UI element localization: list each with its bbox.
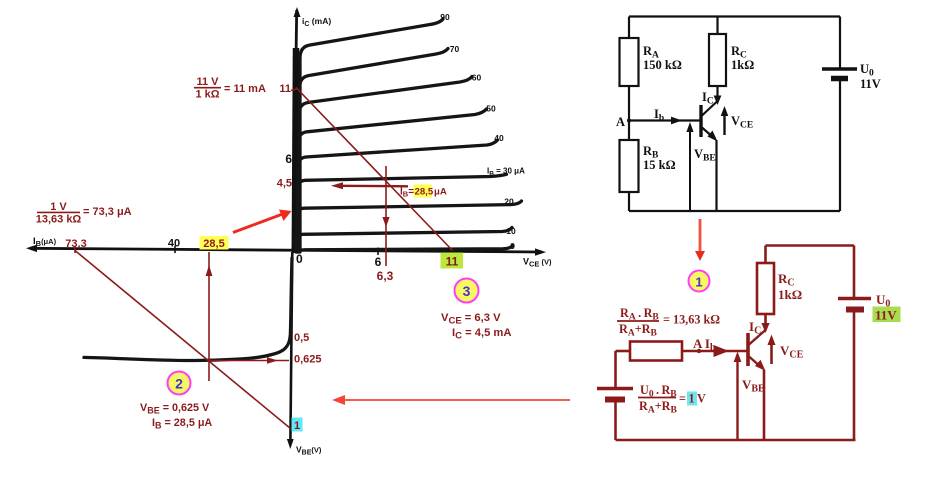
input characteristic curve — [84, 258, 292, 361]
wire bottom rail (bottom circuit) — [616, 439, 856, 442]
output curve IB=30 — [298, 174, 507, 252]
svg-text:15 kΩ: 15 kΩ — [643, 158, 676, 172]
svg-text:0,5: 0,5 — [294, 332, 309, 344]
svg-text:11: 11 — [446, 255, 459, 269]
svg-text:RA . RB: RA . RB — [620, 306, 659, 323]
svg-text:10: 10 — [506, 226, 516, 236]
red arrow to input curve steep part — [233, 210, 292, 233]
svg-text:VCE: VCE — [780, 343, 804, 361]
wire RB to bottom — [628, 192, 630, 211]
marker line IB=28,5 output — [331, 182, 408, 189]
arrow VCE (bottom circuit) — [768, 335, 776, 365]
fraction U0.RB/(RA+RB)=1V — [638, 383, 706, 416]
svg-text:RA+RB: RA+RB — [639, 399, 677, 416]
svg-text:40: 40 — [494, 133, 504, 143]
svg-text:1: 1 — [294, 420, 300, 432]
svg-text:IC = 4,5 mA: IC = 4,5 mA — [452, 327, 511, 342]
battery U0 (top circuit) — [822, 69, 857, 79]
tick 73,3 — [74, 246, 76, 253]
axis VCE / IB horizontal — [26, 245, 546, 256]
svg-text:11V: 11V — [875, 308, 897, 323]
output curve IB=50 — [299, 109, 487, 252]
svg-text:11 V: 11 V — [196, 76, 219, 88]
svg-text:1kΩ: 1kΩ — [778, 287, 802, 302]
svg-text:28,5: 28,5 — [415, 187, 434, 198]
output curve IB=10 — [297, 228, 513, 253]
label 11V green (bottom circuit) — [873, 307, 901, 323]
wire RC2 to collector — [764, 314, 767, 329]
svg-text:VBE = 0,625 V: VBE = 0,625 V — [140, 402, 210, 416]
axis iC vertical — [293, 7, 300, 253]
marker line IB=28,5 input vertical — [206, 252, 213, 381]
wire right battery bottom (bottom circuit) — [853, 310, 856, 440]
label IB=28,5 uA with yellow highlight — [414, 185, 433, 198]
wire base (thevenin resistor to transistor) — [682, 350, 747, 353]
output curve IB=40 — [298, 140, 498, 252]
svg-text:28,5: 28,5 — [203, 238, 224, 250]
svg-text:20: 20 — [504, 197, 514, 207]
svg-text:μA: μA — [434, 187, 447, 198]
wire left branch upper — [628, 17, 630, 39]
resistor RB — [620, 140, 639, 192]
svg-text:VBE(V): VBE(V) — [296, 445, 322, 457]
svg-text:iC (mA): iC (mA) — [302, 16, 331, 28]
svg-text:V: V — [697, 392, 706, 406]
svg-text:VBE: VBE — [694, 147, 716, 164]
resistor RC — [709, 34, 726, 86]
svg-text:150 kΩ: 150 kΩ — [643, 58, 682, 72]
resistor thevenin — [630, 342, 682, 361]
battery right U0 (bottom circuit) — [838, 299, 871, 310]
svg-text:VBE: VBE — [742, 377, 765, 395]
arrow Ib big (bottom circuit) — [714, 345, 730, 357]
wire RC branch top — [716, 17, 718, 35]
fraction 1V/13,63kOhm = 73,3 uA — [36, 201, 132, 226]
svg-text:VCE (V): VCE (V) — [523, 257, 552, 269]
svg-text:3: 3 — [463, 283, 471, 299]
wire top rail (bottom circuit) — [766, 244, 855, 247]
svg-text:1 kΩ: 1 kΩ — [195, 89, 219, 101]
arrow IC (bottom circuit) — [761, 323, 769, 333]
circle 3 — [455, 279, 479, 303]
wire base (node A to transistor) — [629, 119, 700, 121]
svg-text:1 V: 1 V — [50, 201, 67, 213]
svg-text:0: 0 — [296, 252, 303, 266]
svg-text:70: 70 — [450, 44, 460, 54]
svg-text:1kΩ: 1kΩ — [731, 58, 754, 72]
output curve IB=90 — [300, 19, 443, 252]
axis VBE vertical down — [287, 252, 294, 449]
node A dot — [627, 119, 631, 123]
load line output (11mA to 11V) — [296, 88, 453, 251]
wire RA to node A — [628, 86, 630, 140]
wire left of thevenin resistor — [616, 350, 631, 353]
red down arrow between circuits — [695, 219, 705, 261]
svg-text:4,5: 4,5 — [277, 178, 292, 190]
svg-text:VCE = 6,3 V: VCE = 6,3 V — [441, 312, 501, 327]
svg-text:6: 6 — [375, 255, 382, 269]
svg-text:73,3: 73,3 — [65, 238, 86, 250]
arrow VBE (bottom circuit) — [734, 352, 742, 441]
svg-text:IB=: IB= — [400, 187, 414, 199]
svg-text:IB(μA): IB(μA) — [33, 236, 57, 248]
svg-text:= 13,63 kΩ: = 13,63 kΩ — [663, 313, 720, 327]
wire right branch upper — [839, 17, 841, 70]
wire right battery top (bottom circuit) — [853, 246, 856, 298]
output curve IB=60 — [299, 77, 472, 253]
wire RC2 top — [764, 246, 767, 264]
svg-text:RA+RB: RA+RB — [619, 322, 657, 339]
svg-text:2: 2 — [175, 376, 183, 392]
label 1 cyan on VBE axis — [292, 418, 303, 432]
wire top rail (top circuit) — [629, 15, 840, 17]
circle 1 — [689, 271, 710, 292]
transistor Q1 — [701, 101, 718, 142]
resistor RA — [620, 38, 639, 86]
wire emitter down (bottom circuit) — [763, 370, 766, 440]
svg-text:IB = 28,5 μA: IB = 28,5 μA — [152, 417, 212, 431]
wire RC to collector — [716, 86, 718, 100]
tick 40 on IB axis — [174, 246, 176, 254]
battery left (thevenin source) — [597, 389, 633, 400]
arrow Ib on base wire — [671, 117, 682, 125]
svg-text:6: 6 — [285, 152, 292, 166]
svg-text:0,625: 0,625 — [294, 354, 322, 366]
svg-text:90: 90 — [440, 12, 450, 22]
svg-text:IC: IC — [702, 90, 714, 107]
svg-text:=: = — [679, 392, 686, 406]
svg-text:11: 11 — [279, 83, 291, 95]
svg-text:0: 0 — [510, 241, 515, 251]
tick 11 on iC axis — [291, 89, 298, 91]
wire emitter down — [715, 140, 717, 211]
svg-text:A Ib: A Ib — [693, 336, 716, 354]
arrow VBE (top circuit) — [686, 122, 693, 211]
wire bottom rail (top circuit) — [629, 210, 840, 212]
marker line VCE=6,3 — [382, 166, 389, 266]
svg-text:50: 50 — [486, 104, 496, 114]
red long left arrow — [332, 395, 570, 405]
svg-text:RC: RC — [778, 271, 795, 289]
svg-text:= 73,3 μA: = 73,3 μA — [83, 206, 132, 218]
svg-text:11V: 11V — [860, 77, 881, 91]
output curve IB=70 — [300, 49, 449, 253]
label 11 green on VCE axis — [441, 253, 464, 269]
resistor RC2 — [757, 263, 774, 314]
svg-text:= 11 mA: = 11 mA — [224, 83, 266, 95]
circle 2 — [168, 372, 191, 395]
marker line VBE=0,625 — [209, 357, 289, 364]
arrow VCE (top circuit) — [721, 106, 729, 135]
svg-text:60: 60 — [472, 73, 482, 83]
svg-text:13,63 kΩ: 13,63 kΩ — [36, 214, 82, 226]
tick 6 on VCE axis — [377, 248, 379, 256]
svg-text:40: 40 — [168, 238, 180, 250]
output curve IB=20 — [297, 201, 522, 252]
svg-text:IC: IC — [749, 319, 761, 337]
load line input (73,3uA to 1V) — [75, 251, 291, 429]
wire left battery bottom — [614, 401, 617, 440]
svg-text:1: 1 — [689, 392, 695, 406]
arrow IC (top circuit) — [714, 96, 722, 106]
label 28,5 yellow on IB axis — [200, 236, 229, 250]
output curve IB=0 — [296, 246, 513, 253]
wire left battery top — [614, 351, 617, 387]
fraction 11V/1kOhm = 11 mA — [194, 76, 266, 101]
fraction RA.RB/(RA+RB)=13,63k — [617, 306, 720, 339]
transistor Q2 (thevenin circuit) — [748, 330, 766, 371]
wire right branch lower — [839, 80, 841, 211]
svg-text:A: A — [616, 115, 625, 129]
svg-text:1: 1 — [695, 275, 702, 290]
svg-text:VCE: VCE — [731, 114, 753, 131]
node A dot (bottom circuit) — [697, 349, 701, 353]
svg-text:6,3: 6,3 — [377, 269, 394, 283]
